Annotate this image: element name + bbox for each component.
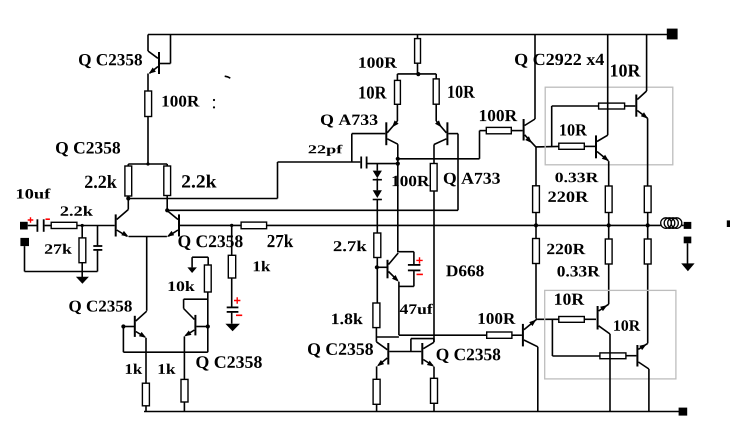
label 100R (top driver) — [480, 110, 517, 121]
resistor 10R (right emitter) — [435, 74, 437, 79]
resistor 220R (top) — [533, 186, 540, 213]
label 0.33R (bottom) — [557, 266, 600, 277]
label Q C2358 (top current source) — [79, 54, 142, 68]
label 0.33R (top) — [555, 173, 598, 183]
resistor 0.33R (bottom1) — [608, 225, 610, 239]
wire: emitter to 100R — [147, 74, 149, 92]
resistor 2.2k (left collector load) — [127, 164, 129, 166]
label D668 — [446, 265, 484, 276]
resistor 1.8k — [373, 303, 380, 328]
wire: bottom driver emitter node — [536, 318, 538, 321]
label 10R (lower output) — [560, 124, 587, 135]
wire: VAS emitter down — [398, 282, 400, 336]
label Q C2358 (mirror) — [69, 301, 131, 315]
transistor driver top (NPN) — [523, 119, 525, 141]
wire: positive top rail — [148, 34, 668, 36]
wire: 2.2k collector loads top bar — [128, 163, 167, 165]
capacitor (feedback shunt, electrolytic) — [231, 278, 233, 307]
label 220R (top) — [548, 191, 588, 202]
node: feedback divider junction — [230, 224, 233, 227]
wire: negative bottom rail — [144, 411, 679, 413]
node: mirror base node right — [206, 324, 210, 328]
resistor 1k (mirror left) — [142, 383, 149, 406]
terminal: input return (black square) — [20, 238, 29, 246]
wire: 1.8k bottom to mirror2 — [376, 336, 399, 338]
resistor 1k feedback shunt — [231, 225, 233, 255]
label 2.2k (right load) — [182, 175, 217, 188]
label 1k (feedback) — [254, 261, 271, 271]
resistor 10k — [207, 257, 209, 265]
node: mirror base node left — [121, 324, 125, 328]
resistor 0.33R (top1) — [605, 186, 612, 213]
resistor 100R (bottom driver base) — [487, 332, 512, 338]
wire: right A733 collector — [433, 145, 435, 164]
wire: tail current source — [146, 237, 148, 311]
terminal: V- supply (bottom right square) — [679, 408, 688, 416]
transistor Q C2358 mirror left — [123, 326, 134, 328]
node: junction input RC — [81, 224, 84, 227]
label 22pf — [309, 145, 343, 156]
label: polarity + (red) — [234, 297, 240, 303]
resistor 1k (mirror right) — [181, 379, 188, 402]
diode D2 — [373, 190, 382, 198]
capacitor input filter — [97, 226, 99, 246]
transistor Q C2922 output 1 (top right) — [635, 95, 637, 117]
label 10R (upper output) — [611, 64, 641, 76]
wire: left A733 collector / VAS node — [397, 144, 399, 252]
transistor driver bottom (PNP) — [522, 324, 524, 347]
capacitor 47uf (across VAS) — [398, 251, 414, 253]
wire: right collector to 2nd stage (line B) — [167, 209, 458, 211]
label 100R (2nd stage feed) — [359, 57, 397, 68]
frame: output pair group (bottom) — [545, 290, 676, 379]
wire: A733 collectors tie (to driver tap) — [398, 158, 480, 160]
node: junction feed — [146, 162, 149, 165]
label 27k (input) — [45, 244, 72, 254]
wire: VAS tie to 100R top driver — [480, 130, 487, 132]
terminal: output return (black square) — [684, 237, 692, 244]
node: 10R common — [416, 72, 420, 76]
transistor Q2 diff right — [178, 214, 180, 236]
label Q C2358 (tail source) — [178, 235, 242, 250]
wire: VAS emitter to driver (bottom) — [399, 334, 487, 336]
wire: 100R mid down to mirror — [433, 191, 435, 342]
node: VAS junction 2 — [396, 162, 400, 166]
resistor 100R (top driver base) — [486, 127, 511, 133]
transistor Q C2922 output 2 (mid) — [595, 135, 597, 158]
node B: right collector junction — [165, 208, 169, 212]
node: VAS base tap — [375, 265, 379, 269]
transistor Q A733 left (PNP) — [396, 104, 398, 121]
wire: mirror2 right emitter — [433, 367, 435, 379]
resistor 100R (2nd stage feed) — [417, 35, 419, 39]
ground (feedback cap) — [225, 324, 240, 332]
label 100R (top left) — [162, 96, 199, 107]
resistor 10R (lower output base) — [559, 143, 585, 149]
wire: mirror2 left emitter — [376, 366, 378, 379]
label 10R (bottom half upper) — [555, 293, 584, 304]
wire: diodes to 2.7k — [376, 200, 378, 234]
node: output junction 220R — [534, 223, 538, 227]
terminal: V+ supply (top right square) — [667, 29, 678, 40]
label 47uf — [400, 304, 433, 314]
wire: 10R top bar — [397, 73, 436, 75]
wire: 22pf node down to diodes — [376, 164, 378, 171]
capacitor 10uf input coupling — [28, 225, 37, 227]
terminal: edge mark (right) — [727, 220, 730, 227]
node: output junction 0.33R b — [646, 223, 650, 227]
label: 10uf polarity + (red) — [28, 217, 34, 223]
resistor 2.7k — [374, 233, 381, 258]
wire: return to ground — [687, 243, 689, 264]
label: 47uf polarity - (red) — [417, 273, 423, 275]
resistor 0.33R (bottom2) — [647, 225, 649, 239]
resistor 10R (lower output base, bottom half) — [600, 353, 626, 359]
resistor 10R (upper output base) — [552, 105, 599, 107]
wire: 100R down to diff load — [147, 117, 149, 165]
label 100R (mid) — [392, 176, 429, 187]
terminal: output (black square) — [684, 222, 692, 229]
label Q C2358 (bottom left) — [308, 343, 373, 357]
wire: 22pf feed — [278, 161, 361, 163]
resistor 100R (top left) — [145, 91, 152, 117]
label Q A733 (right) — [444, 173, 500, 187]
wire: top driver emitter node — [536, 145, 559, 148]
wire: input return to ground — [24, 246, 26, 271]
label 27k (feedback) — [268, 234, 294, 247]
label 10R (bottom half lower) — [614, 320, 640, 331]
label 1.8k — [332, 313, 363, 324]
resistor (bottom mirror right) — [431, 378, 438, 403]
transistor Q C2358 (top, diode connected) — [147, 35, 149, 52]
wire: 10R tap riser — [551, 106, 553, 147]
wire: mirror bases tie — [122, 327, 124, 353]
resistor 10R (upper output base, bottom half) — [559, 317, 585, 323]
node: VAS junction 1 — [396, 157, 400, 161]
wire: 10k to mirror base — [207, 292, 209, 352]
wire: feedback to right base — [180, 224, 241, 226]
label Q C2358 (diff pair) — [56, 142, 120, 156]
transistor Q C2358 (bottom mirror left) — [376, 342, 387, 350]
resistor 27k input bias — [81, 226, 83, 238]
label: 10uf polarity - (red) — [46, 218, 50, 220]
wire: input to diff pair base — [77, 225, 115, 227]
wire: left A733 base — [352, 133, 386, 135]
label 10uf — [17, 189, 51, 199]
label 2.2k (left load) — [85, 175, 117, 188]
wire: right A733 base — [448, 133, 458, 135]
diode D1 — [373, 171, 382, 179]
resistor 27k feedback — [241, 222, 267, 229]
transistor Q C2358 mirror right (diode connected) — [196, 326, 207, 328]
wire: left collector to 22pf node (line A) — [128, 198, 277, 200]
transistor Q C2358 (bottom mirror right, diode connected) — [433, 339, 435, 343]
resistor 2.2k (right collector load) — [166, 164, 168, 166]
node: output junction 0.33R a — [607, 223, 611, 227]
label 2.7k — [334, 241, 367, 252]
label 1k (mirror left) — [126, 364, 142, 374]
label 220R (bottom) — [547, 244, 585, 255]
wire: mirror left emitter — [145, 338, 147, 383]
label Q C2358 (bottom right) — [437, 349, 501, 363]
label Q C2922 x4 — [515, 54, 604, 68]
transistor Q A733 right (PNP) — [435, 104, 437, 121]
ground (input) — [81, 272, 83, 278]
label 2.2k (input series) — [61, 206, 93, 216]
stray mark: small dash artifact — [225, 76, 231, 78]
wire: 10R tap riser (bottom) — [551, 319, 553, 356]
transistor Q C2922 output 3 (PNP, upper) — [597, 306, 599, 330]
resistor 10R (left emitter) — [396, 74, 398, 81]
wire: 2.7k to 1.8k — [376, 258, 378, 304]
wire: mirror collector loop — [184, 298, 208, 300]
label: polarity - (red) — [236, 314, 242, 316]
transistor Q C2922 output 4 (PNP, lower) — [636, 345, 638, 367]
label 10k — [169, 281, 195, 291]
node A: left collector junction — [126, 196, 130, 200]
wire: mirror right emitter — [183, 336, 185, 379]
resistor (bottom mirror left) — [373, 379, 380, 404]
label 10R (right emitter) — [448, 86, 475, 98]
terminal: input signal (black square) — [20, 222, 28, 230]
label: 47uf polarity + (red) — [416, 257, 422, 263]
ground arrow (10k hook) — [187, 267, 197, 273]
wire: output line (feedback to output) — [267, 224, 661, 226]
label Q C2358 (mirror right) — [196, 356, 261, 370]
transistor D668 driver (VAS) — [377, 266, 387, 268]
stray mark: colon artifact — [213, 99, 215, 101]
wire: diff emitters — [129, 236, 167, 238]
frame: output pair group (top) — [545, 87, 673, 165]
wire: 10k hook — [192, 256, 208, 258]
resistor 100R (mid) — [430, 164, 437, 192]
resistor 220R (bottom) — [535, 225, 537, 238]
capacitor 22pf — [360, 157, 362, 169]
resistor 0.33R (top2) — [644, 186, 651, 213]
label 1k (mirror right) — [159, 364, 176, 374]
label 10R (left emitter) — [359, 86, 386, 98]
ground (output return) — [681, 263, 694, 271]
wire: mirror2 bases — [389, 351, 421, 353]
label 100R (bottom driver) — [479, 313, 516, 324]
transistor Q1 diff left — [115, 214, 117, 236]
resistor 2.2k series input — [51, 222, 77, 228]
label Q A733 (left) — [321, 115, 378, 128]
inductor: output coil — [661, 218, 672, 229]
